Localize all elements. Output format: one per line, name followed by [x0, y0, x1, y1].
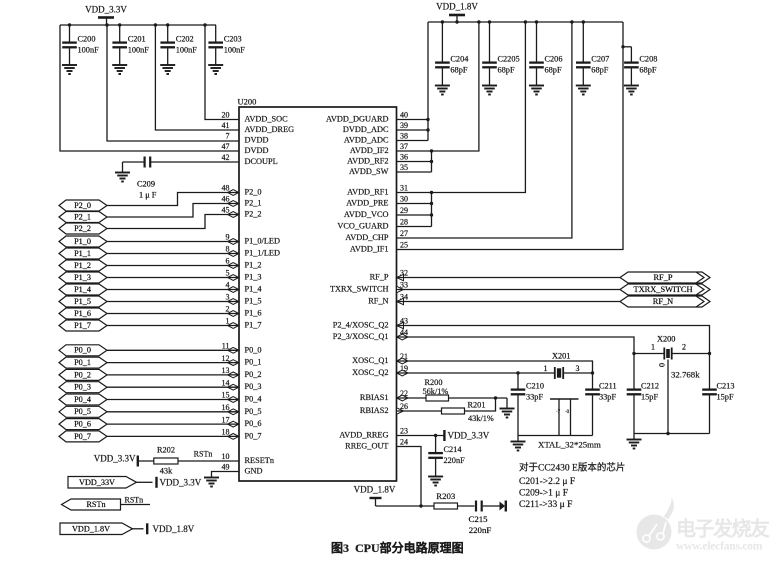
svg-text:P2_4/XOSC_Q2: P2_4/XOSC_Q2 [333, 321, 389, 330]
svg-text:100nF: 100nF [128, 46, 150, 55]
wire P1_3 to IC [107, 277, 239, 279]
svg-text:P2_2: P2_2 [74, 224, 91, 233]
wire P1_0 to IC [107, 241, 239, 243]
pin label P2_2 inside U200 [245, 210, 262, 219]
capacitor C208 [624, 47, 657, 86]
svg-text:100nF: 100nF [176, 46, 198, 55]
junction pin24 net [419, 504, 422, 507]
wire P0_2 to IC [107, 374, 239, 376]
junction case lead [666, 432, 669, 435]
junction on 1.8V rail [455, 20, 458, 23]
net tag P0_0 [59, 345, 107, 356]
wire R202 to pin 10 RESETn [178, 460, 239, 462]
svg-text:VDD_3.3V: VDD_3.3V [160, 477, 202, 487]
pin 33 output marker [397, 286, 404, 292]
pin 13 port marker [228, 372, 239, 378]
svg-text:GND: GND [245, 467, 263, 476]
pin label AVDD_RREG inside U200 [339, 431, 388, 440]
pin label P0_5 inside U200 [245, 407, 262, 416]
svg-text:AVDD_DGUARD: AVDD_DGUARD [326, 115, 389, 124]
pin label P0_1 inside U200 [245, 358, 262, 367]
svg-text:P1_0: P1_0 [74, 237, 91, 246]
pin label XOSC_Q1 inside U200 [352, 356, 388, 365]
pin number 10 [222, 452, 230, 461]
svg-text:P0_2: P0_2 [74, 370, 91, 379]
wire pin 36 AVDD_RF2 stub [397, 161, 432, 163]
wire pin 35 AVDD_SW stub [397, 171, 432, 173]
wire VDD_3.3V top rail [60, 24, 216, 26]
junction on 3.3V rail [118, 23, 121, 26]
power tap bar VDD_3.3V at pin 23 [443, 430, 445, 441]
svg-text:RSTn: RSTn [125, 496, 144, 505]
junction on 1.8V rail [524, 20, 527, 23]
svg-text:AVDD_RF2: AVDD_RF2 [347, 157, 388, 166]
net tag P2_1 [59, 212, 107, 223]
svg-text:42: 42 [222, 153, 230, 162]
svg-text:RF_P: RF_P [653, 273, 672, 282]
svg-text:P1_7: P1_7 [245, 321, 262, 330]
pin 43 input marker [397, 322, 404, 328]
pin number 4 [226, 281, 230, 290]
ground of C209 [115, 173, 130, 182]
net tag P1_2 [59, 260, 107, 271]
note line 1 [519, 462, 625, 474]
pin 48 port marker [228, 190, 239, 196]
pin label P0_3 inside U200 [245, 382, 262, 391]
pin 15 port marker [228, 397, 239, 403]
svg-text:38: 38 [400, 132, 408, 141]
pin label XOSC_Q2 inside U200 [352, 368, 388, 377]
svg-text:AVDD_SOC: AVDD_SOC [245, 115, 289, 124]
svg-text:X200: X200 [657, 335, 675, 344]
wire R200 to ground point [449, 397, 508, 399]
junction C214 [434, 434, 437, 437]
wire DCOUPL pin 42 to C209 [151, 161, 239, 163]
ground of C204 [435, 86, 450, 95]
wire P2_0 to pin 48 [107, 193, 239, 206]
pin 18 port marker [228, 434, 239, 440]
pin 2 port marker [228, 311, 239, 317]
wire rail to pin 27 AVDD_CHP [397, 22, 572, 238]
net tag P1_7 [59, 320, 107, 331]
svg-text:43k: 43k [160, 467, 173, 476]
net tag P0_6 [59, 419, 107, 430]
pin label RBIAS1 inside U200 [360, 393, 389, 402]
svg-text:TXRX_SWITCH: TXRX_SWITCH [330, 285, 389, 294]
svg-text:R202: R202 [157, 446, 175, 455]
pin label P1_5 inside U200 [245, 297, 262, 306]
pin number 43 [400, 317, 408, 326]
svg-text:P2_0: P2_0 [74, 201, 91, 210]
wire P1_4 to IC [107, 289, 239, 291]
wire P0_7 to IC [107, 435, 239, 437]
junction C210 [516, 371, 519, 374]
svg-text:C212: C212 [641, 381, 659, 390]
wire pin 28 VCO_GUARD stub [397, 226, 432, 228]
svg-text:P0_4: P0_4 [245, 395, 263, 404]
wire to ground stub [633, 434, 635, 440]
wire pin 23 AVDD_RREG to VDD tap [397, 435, 445, 437]
junction [430, 202, 433, 205]
wire sub-drop pins 36,35 [431, 151, 433, 172]
ground of C208 [624, 86, 639, 95]
power symbol VDD_1.8V label [436, 2, 478, 12]
pin number 17 [222, 415, 230, 424]
svg-text:P0_4: P0_4 [74, 395, 91, 404]
pin 4 port marker [228, 287, 239, 293]
wire pin 24 RREG_OUT down [397, 447, 422, 507]
svg-text:18: 18 [222, 428, 230, 437]
wire sub-drop pins 30,29,28 [431, 193, 433, 227]
junction on 3.3V rail [68, 23, 71, 26]
net tag P0_1 [59, 357, 107, 368]
wire pin 33 to TXRX_SWITCH tag [397, 289, 621, 291]
pin number 2 [226, 305, 230, 314]
power tap bar VDD_1.8V at RREG_OUT [370, 498, 382, 506]
svg-text:25: 25 [400, 241, 408, 250]
wire P2_2 to pin 45 [107, 215, 239, 229]
net tag P2_2 [59, 223, 107, 234]
pin number 28 [400, 218, 408, 227]
svg-text:68pF: 68pF [450, 66, 467, 75]
pin label TXRX_SWITCH inside U200 [330, 285, 389, 294]
svg-text:35: 35 [400, 163, 408, 172]
pin 34 input marker [397, 298, 404, 304]
svg-text:10: 10 [222, 452, 230, 461]
label 56k/1% [423, 387, 449, 396]
label XTAL_32*25mm [538, 440, 601, 450]
svg-text:VDD_3.3V: VDD_3.3V [85, 5, 127, 15]
pin 14 port marker [228, 384, 239, 390]
wire VDD_1.8V to bar [133, 528, 144, 530]
pin label P1_2 inside U200 [245, 261, 262, 270]
svg-text:7: 7 [226, 132, 230, 141]
wire C209 to ground [122, 162, 124, 173]
pin number 46 [222, 195, 230, 204]
pin number 44 [400, 328, 408, 337]
pin 46 port marker [228, 201, 239, 207]
svg-text:RSTn: RSTn [194, 449, 213, 458]
svg-text:X201: X201 [552, 352, 570, 361]
svg-text:C211: C211 [599, 381, 617, 390]
svg-text:36: 36 [400, 153, 408, 162]
pin number 36 [400, 153, 408, 162]
net tag TXRX_SWITCH [620, 284, 710, 295]
svg-text:28: 28 [400, 218, 408, 227]
op-amp U1 IC U200 CC2430 body [239, 107, 397, 481]
svg-text:12: 12 [222, 354, 230, 363]
wire X200 pin 2 [672, 353, 710, 355]
pin number 22 [400, 389, 408, 398]
pin label AVDD_CHP inside U200 [345, 233, 389, 242]
watermark text [676, 517, 770, 553]
svg-text:27: 27 [400, 229, 408, 238]
pin 26 output marker [397, 408, 404, 414]
junction on 1.8V rail [535, 20, 538, 23]
pin label AVDD_DGUARD inside U200 [326, 115, 389, 124]
svg-text:C203: C203 [224, 34, 242, 43]
svg-text:P0_7: P0_7 [245, 431, 262, 440]
svg-text:C209->1 μ F: C209->1 μ F [519, 488, 568, 498]
wire pin 21 XOSC_Q1 over to C211 side [397, 361, 593, 373]
junction on 3.3V rail [166, 23, 169, 26]
wire pin 39 DVDD_ADC stub [397, 129, 429, 131]
svg-text:14: 14 [222, 378, 230, 387]
wire X200 pin 1 [634, 353, 664, 355]
svg-text:P1_7: P1_7 [74, 321, 91, 330]
pin label AVDD_IF2 inside U200 [350, 146, 389, 155]
svg-text:48: 48 [222, 184, 230, 193]
net tag P1_1 [59, 248, 107, 259]
svg-text:C202: C202 [176, 34, 194, 43]
wire pin 44 to C212/X200 pin 1 [397, 337, 635, 389]
label 32.768k [671, 370, 700, 380]
pin number 37 [400, 142, 408, 151]
pin label P2_0 inside U200 [245, 188, 262, 197]
svg-text:P1_5: P1_5 [74, 297, 91, 306]
svg-text:15: 15 [222, 391, 230, 400]
wire pin 43 to C213/X200 pin 2 [397, 326, 710, 389]
wire P1_6 to IC [107, 313, 239, 315]
resistor R203 [434, 503, 458, 509]
ground of pin 49 [204, 478, 219, 487]
label VDD_3.3V bottom [160, 477, 202, 487]
junction on 3.3V rail [105, 23, 108, 26]
capacitor C213 [702, 381, 734, 433]
svg-text:P1_1: P1_1 [74, 249, 91, 258]
pin number 35 [400, 163, 408, 172]
pin number 49 [222, 463, 230, 472]
pin 11 port marker [228, 347, 239, 353]
power tap bar VDD_3.3V at R202 [137, 456, 139, 467]
pin number 18 [222, 428, 230, 437]
wire pin 49 GND to ground [212, 472, 240, 478]
svg-text:RF_N: RF_N [368, 297, 388, 306]
label RSTn net on wire [194, 449, 213, 458]
pin label P1_1/LED inside U200 [245, 249, 281, 258]
svg-text:XOSC_Q1: XOSC_Q1 [352, 356, 388, 365]
pin 8 port marker [228, 251, 239, 257]
pin label RF_N inside U200 [368, 297, 388, 306]
capacitor C214 [428, 436, 465, 477]
capacitor C212 [627, 381, 659, 433]
label R203 [436, 491, 456, 501]
svg-text:AVDD_PRE: AVDD_PRE [346, 199, 388, 208]
pin 3 port marker [228, 299, 239, 305]
label VDD_3.3V at R202 [94, 453, 136, 463]
svg-text:RF_P: RF_P [370, 273, 389, 282]
svg-text:XOSC_Q2: XOSC_Q2 [352, 368, 388, 377]
wire rail to pin 37 AVDD_IF2 [397, 22, 479, 151]
pin number 48 [222, 184, 230, 193]
wire to RBIAS ground [506, 398, 508, 409]
pin number 33 [400, 281, 408, 290]
pin label AVDD_SOC inside U200 [245, 115, 289, 124]
terminator arrow at C215 output [500, 501, 506, 512]
pin 16 port marker [228, 409, 239, 415]
svg-text:C209: C209 [137, 180, 155, 189]
pin number 23 [400, 427, 408, 436]
svg-text:AVDD_CHP: AVDD_CHP [345, 233, 389, 242]
svg-text:220nF: 220nF [469, 525, 492, 535]
wire stub to C208 [623, 46, 631, 48]
pin number 26 [400, 402, 408, 411]
note line 4 [519, 500, 572, 510]
svg-text:AVDD_ADC: AVDD_ADC [344, 136, 389, 145]
svg-text:C210: C210 [526, 381, 544, 390]
net tag VDD_33V [68, 477, 137, 489]
pin label RF_P inside U200 [370, 273, 389, 282]
capacitor C200 [62, 25, 99, 65]
svg-text:P1_5: P1_5 [245, 297, 262, 306]
pin number 3 [226, 293, 230, 302]
wire rail to pin 25 AVDD_IF1 [397, 22, 624, 250]
ground of C203 [208, 65, 223, 74]
svg-text:AVDD_VCO: AVDD_VCO [344, 210, 389, 219]
pin label RREG_OUT inside U200 [345, 442, 388, 451]
pin label DVDD inside U200 [245, 146, 269, 155]
pin label DVDD inside U200 [245, 136, 269, 145]
wire VDD_1.8V top rail [428, 21, 623, 23]
pin number 24 [400, 438, 408, 447]
pin 22 port marker [397, 395, 408, 401]
svg-text:C206: C206 [545, 54, 563, 63]
svg-text:49: 49 [222, 463, 230, 472]
pin number 29 [400, 206, 408, 215]
ground of C210 [511, 442, 526, 451]
wire P0_3 to IC [107, 386, 239, 388]
svg-text:AVDD_RREG: AVDD_RREG [339, 431, 388, 440]
net tag P0_2 [59, 369, 107, 380]
svg-text:43k/1%: 43k/1% [468, 414, 494, 423]
label RSTn net name [125, 496, 144, 505]
svg-text:VDD_33V: VDD_33V [79, 478, 115, 487]
svg-text:VDD_3.3V: VDD_3.3V [448, 431, 490, 441]
pin number 40 [400, 111, 408, 120]
wire pin 29 AVDD_VCO stub [397, 214, 432, 216]
svg-text:C213: C213 [717, 381, 735, 390]
wire pin 30 AVDD_PRE stub [397, 203, 432, 205]
pin number 13 [222, 366, 230, 375]
svg-text:C204: C204 [450, 54, 469, 63]
ground of C214 [428, 477, 443, 486]
svg-text:29: 29 [400, 206, 408, 215]
wire crystal ground rail [518, 435, 593, 437]
pin number 31 [400, 184, 408, 193]
wire P1_5 to IC [107, 301, 239, 303]
svg-text:P0_6: P0_6 [245, 419, 262, 428]
svg-text:17: 17 [222, 415, 230, 424]
svg-text:15pF: 15pF [641, 393, 658, 402]
svg-text:AVDD_IF2: AVDD_IF2 [350, 146, 389, 155]
junction [430, 160, 433, 163]
svg-text:P1_1/LED: P1_1/LED [245, 249, 281, 258]
junction [430, 149, 433, 152]
svg-text:P1_4: P1_4 [245, 285, 263, 294]
pin number 42 [222, 153, 230, 162]
pin label DCOUPL inside U200 [245, 157, 278, 166]
net tag P1_4 [59, 284, 107, 295]
pin 45 port marker [228, 212, 239, 218]
svg-text:P0_5: P0_5 [74, 407, 91, 416]
svg-text:对于CC2430 E版本的芯片: 对于CC2430 E版本的芯片 [519, 462, 625, 474]
pin label P2_3/XOSC_Q1 inside U200 [333, 332, 389, 341]
wire VDD_1.8V to R203 [376, 505, 435, 507]
svg-text:P0_6: P0_6 [74, 419, 91, 428]
pin label AVDD_SW inside U200 [349, 167, 389, 176]
junction on 1.8V rail [570, 20, 573, 23]
pin label P0_0 inside U200 [245, 345, 262, 354]
pin 5 port marker [228, 275, 239, 281]
svg-text:P0_0: P0_0 [74, 346, 91, 355]
wire R203 to C215 [458, 505, 475, 507]
capacitor C211 [585, 373, 616, 436]
svg-text:www.elecfans.com: www.elecfans.com [676, 541, 763, 553]
junction on 1.8V rail [582, 20, 585, 23]
svg-text:C207: C207 [591, 54, 609, 63]
watermark logo elecfans [637, 497, 674, 550]
svg-text:2: 2 [682, 343, 686, 352]
net tag P1_0 [59, 236, 107, 247]
pin label P1_6 inside U200 [245, 309, 262, 318]
junction [426, 118, 429, 121]
svg-text:AVDD_DREG: AVDD_DREG [245, 125, 295, 134]
pin label AVDD_IF1 inside U200 [350, 245, 389, 254]
wire pin 19 XOSC_Q2 to crystal X201 pin 1 [397, 372, 555, 374]
svg-text:P2_1: P2_1 [245, 199, 262, 208]
svg-text:R201: R201 [468, 401, 486, 410]
svg-text:P0_5: P0_5 [245, 407, 262, 416]
pin number 21 [400, 352, 408, 361]
net tag RSTn [62, 499, 121, 510]
svg-text:DCOUPL: DCOUPL [245, 157, 278, 166]
wire VDD_3.3V to R202 [138, 460, 154, 462]
svg-text:46: 46 [222, 195, 230, 204]
pin label AVDD_PRE inside U200 [346, 199, 388, 208]
svg-text:41: 41 [222, 121, 230, 130]
svg-text:P1_4: P1_4 [74, 285, 91, 294]
caption [331, 540, 464, 555]
svg-text:P2_2: P2_2 [245, 210, 262, 219]
svg-text:C211->33 μ F: C211->33 μ F [519, 500, 572, 510]
net tag RF_P [620, 272, 710, 283]
svg-text:P1_6: P1_6 [74, 309, 91, 318]
junction on 1.8V rail [441, 20, 444, 23]
capacitor C215 series [468, 501, 491, 535]
pin number 27 [400, 229, 408, 238]
wire P0_4 to IC [107, 399, 239, 401]
pin number 47 [222, 142, 230, 151]
svg-text:68pF: 68pF [591, 66, 608, 75]
capacitor C203 [208, 25, 245, 65]
wire rail to pin 7 DVDD [107, 25, 239, 141]
wire P0_6 to IC [107, 423, 239, 425]
junction [621, 45, 624, 48]
pin 1 port marker [228, 323, 239, 329]
pin label P2_1 inside U200 [245, 199, 262, 208]
svg-text:1: 1 [544, 364, 548, 373]
label R200 [425, 378, 443, 387]
svg-text:P0_7: P0_7 [74, 432, 91, 441]
svg-text:VDD_3.3V: VDD_3.3V [94, 453, 136, 463]
svg-text:40: 40 [400, 111, 408, 120]
net tag P0_4 [59, 394, 107, 405]
wire P2_1 to pin 46 [107, 204, 239, 218]
svg-text:P2_3/XOSC_Q1: P2_3/XOSC_Q1 [333, 332, 389, 341]
pin number 1 [226, 317, 230, 326]
svg-text:TXRX_SWITCH: TXRX_SWITCH [633, 285, 692, 294]
svg-text:P0_1: P0_1 [245, 358, 262, 367]
